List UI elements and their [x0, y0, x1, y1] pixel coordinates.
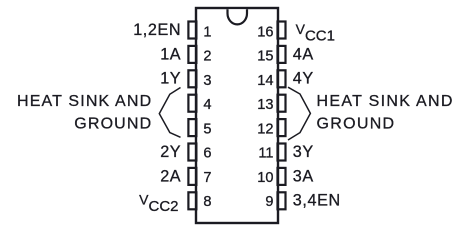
svg-text:3,4EN: 3,4EN — [293, 192, 341, 210]
pin 1 (1,2EN) — [133, 21, 211, 41]
svg-text:VCC2: VCC2 — [139, 192, 178, 215]
svg-text:2A: 2A — [160, 167, 181, 185]
pin 13 (heat sink / ground) — [257, 95, 285, 114]
svg-text:10: 10 — [257, 170, 273, 186]
left brace joining pins 4-5 — [159, 88, 180, 138]
svg-text:1: 1 — [203, 24, 211, 40]
pin 5 (heat sink / ground) — [188, 119, 211, 137]
svg-text:4: 4 — [203, 97, 211, 113]
svg-text:1Y: 1Y — [160, 70, 181, 88]
pin 7 (2A) — [160, 167, 211, 186]
right brace joining pins 12-13 — [288, 87, 310, 140]
pin 6 (2Y) — [160, 143, 211, 162]
pin 12 (heat sink / ground) — [257, 119, 285, 137]
pin 4 (heat sink / ground) — [188, 95, 211, 114]
left heat sink and ground label — [17, 93, 152, 133]
svg-text:12: 12 — [257, 121, 273, 137]
pin 11 (3Y) — [258, 143, 313, 162]
svg-text:16: 16 — [257, 24, 273, 40]
svg-text:GROUND: GROUND — [317, 116, 396, 133]
IC package body U1 (16-pin DIP, top view) — [196, 8, 278, 223]
pin 2 (1A) — [160, 45, 211, 64]
svg-text:3Y: 3Y — [293, 143, 314, 161]
pin 9 (3,4EN) — [265, 192, 340, 211]
svg-text:15: 15 — [257, 49, 273, 65]
svg-text:9: 9 — [265, 194, 273, 210]
pin 15 (4A) — [257, 45, 314, 64]
svg-text:7: 7 — [203, 170, 211, 186]
index notch — [228, 9, 248, 24]
pin 3 (1Y) — [160, 70, 211, 89]
pin 16 (VCC1) — [257, 21, 335, 44]
svg-text:GROUND: GROUND — [74, 116, 152, 133]
svg-text:4A: 4A — [293, 45, 314, 63]
svg-text:5: 5 — [203, 121, 211, 137]
svg-text:4Y: 4Y — [293, 70, 314, 88]
pin 10 (3A) — [257, 167, 314, 186]
svg-text:3: 3 — [203, 73, 211, 89]
svg-text:2Y: 2Y — [160, 143, 181, 161]
pin 8 (VCC2) — [139, 192, 211, 215]
svg-text:2: 2 — [203, 49, 211, 65]
svg-text:6: 6 — [203, 146, 211, 162]
svg-text:VCC1: VCC1 — [296, 21, 335, 44]
svg-text:3A: 3A — [293, 167, 314, 185]
svg-text:1A: 1A — [160, 45, 181, 63]
svg-text:8: 8 — [203, 194, 211, 210]
svg-text:HEAT SINK AND: HEAT SINK AND — [17, 93, 152, 110]
svg-text:14: 14 — [257, 73, 273, 89]
svg-text:HEAT SINK AND: HEAT SINK AND — [317, 93, 454, 110]
pin 14 (4Y) — [257, 70, 314, 89]
svg-text:13: 13 — [257, 97, 273, 113]
svg-text:1,2EN: 1,2EN — [133, 21, 181, 39]
right heat sink and ground label — [317, 93, 454, 133]
svg-text:11: 11 — [258, 146, 273, 162]
